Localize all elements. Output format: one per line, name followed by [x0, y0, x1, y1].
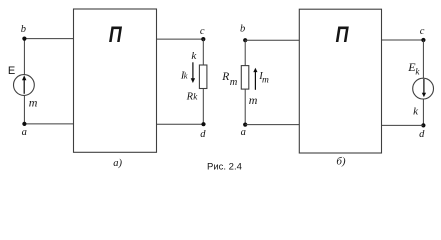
svg-text:b: b: [240, 24, 245, 35]
node a (right circuit): [243, 123, 247, 127]
svg-text:c: c: [420, 26, 425, 37]
svg-text:d: d: [200, 129, 206, 140]
wire bottom-right of box a (to node d): [157, 123, 204, 125]
node d (right circuit): [421, 123, 425, 127]
source Ek: [413, 78, 434, 99]
wire right rail lower (Ek to d): [422, 99, 424, 125]
svg-text:б): б): [336, 156, 346, 168]
current arrow Ik: [192, 62, 194, 79]
wire left rail lower (source E to a): [23, 95, 25, 124]
svg-text:m: m: [29, 95, 38, 109]
node b (right circuit): [243, 38, 247, 42]
svg-text:П: П: [109, 22, 123, 47]
node d: [201, 122, 205, 126]
svg-text:П: П: [336, 22, 350, 47]
svg-text:k: k: [193, 91, 198, 101]
wire left rail upper (b to source E): [23, 39, 25, 75]
source E: [14, 75, 35, 96]
wire top-right of box b (to node c): [382, 39, 424, 41]
svg-text:k: k: [413, 105, 419, 117]
node a: [22, 122, 26, 126]
node c (right circuit): [421, 38, 425, 42]
node b: [22, 37, 26, 41]
resistor Rm: [241, 66, 249, 90]
svg-text:d: d: [419, 129, 425, 140]
svg-text:k: k: [184, 71, 188, 81]
node c: [201, 37, 205, 41]
two-port U2 (П) right box: [299, 9, 381, 153]
svg-text:k: k: [191, 50, 197, 62]
svg-text:a: a: [22, 127, 27, 138]
svg-text:m: m: [230, 77, 238, 88]
svg-text:а): а): [113, 158, 122, 169]
svg-text:k: k: [415, 66, 420, 76]
wire rail lower (Rm to a): [244, 89, 246, 125]
svg-text:R: R: [221, 71, 229, 83]
svg-text:c: c: [200, 26, 205, 37]
wire bottom (a to box b): [245, 124, 299, 126]
svg-text:m: m: [249, 93, 258, 107]
svg-text:b: b: [21, 24, 26, 35]
wire right rail upper (c to source Ek): [422, 40, 424, 78]
wire branch k upper: [202, 39, 204, 65]
wire top-right of box a (to node c): [157, 38, 204, 40]
resistor Rk: [199, 65, 207, 89]
current arrow Im: [254, 72, 256, 90]
svg-text:m: m: [262, 76, 269, 86]
wire top-left (b to box a): [24, 38, 73, 40]
wire bottom-right of box b (to node d): [382, 124, 424, 126]
svg-text:E: E: [8, 65, 15, 77]
wire top (b to box b): [245, 39, 299, 41]
wire rail upper (b to Rm): [244, 40, 246, 65]
two-port U1 (П) left box: [74, 9, 157, 152]
wire bottom-left (a to box a): [24, 123, 73, 125]
svg-text:a: a: [241, 127, 246, 138]
svg-text:Рис. 2.4: Рис. 2.4: [207, 161, 242, 172]
wire branch k lower: [202, 89, 204, 125]
